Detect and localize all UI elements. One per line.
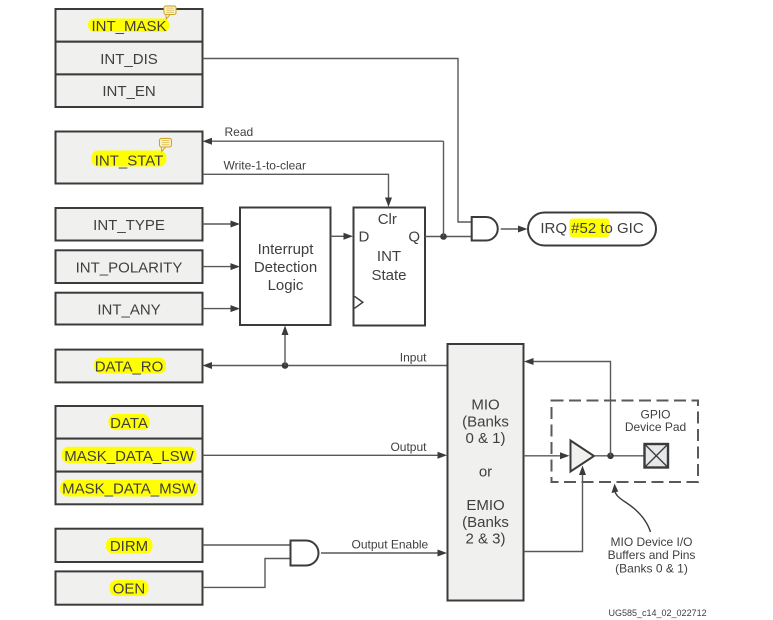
svg-text:MIO Device I/O: MIO Device I/O xyxy=(610,535,692,549)
GPIO device pad symbol xyxy=(645,444,669,468)
wire OEN to AND U2 bottom input xyxy=(203,559,291,588)
svg-text:INT_POLARITY: INT_POLARITY xyxy=(76,259,183,276)
svg-text:EMIO: EMIO xyxy=(466,497,504,514)
svg-text:Read: Read xyxy=(225,125,254,139)
wire Q output to AND U1 bottom input xyxy=(425,236,471,238)
wire pad node feedback to MIO input xyxy=(533,362,611,456)
INT State flip-flop block xyxy=(354,208,426,326)
IRQ #52 to GIC oval xyxy=(528,213,656,246)
svg-text:INT_DIS: INT_DIS xyxy=(100,51,158,68)
highlight DIRM xyxy=(106,538,153,554)
svg-text:Buffers and Pins: Buffers and Pins xyxy=(608,548,696,562)
svg-text:Write-1-to-clear: Write-1-to-clear xyxy=(224,159,306,173)
register OEN xyxy=(56,571,203,604)
wire INT_ANY to detection logic xyxy=(203,308,232,310)
interrupt detection logic block xyxy=(240,208,331,326)
svg-text:Input: Input xyxy=(400,351,427,365)
wire Output Enable to MIO xyxy=(321,552,439,554)
register INT_POLARITY xyxy=(56,250,203,283)
wire Write-1-to-clear to Clr pin xyxy=(203,174,389,199)
register INT_STAT xyxy=(56,132,203,184)
register INT_ANY xyxy=(56,293,203,325)
highlight DATA_RO xyxy=(94,358,166,374)
svg-text:DATA: DATA xyxy=(110,415,148,432)
svg-text:INT_TYPE: INT_TYPE xyxy=(93,217,165,234)
svg-text:D: D xyxy=(359,228,370,245)
highlight MASK_DATA_MSW xyxy=(60,480,198,497)
junction dot input node xyxy=(282,362,289,369)
junction dot pad node xyxy=(607,453,614,460)
register DIRM xyxy=(56,529,203,562)
svg-text:INT_EN: INT_EN xyxy=(102,83,155,100)
svg-text:MASK_DATA_MSW: MASK_DATA_MSW xyxy=(62,481,196,498)
register INT_TYPE xyxy=(56,208,203,241)
svg-text:(Banks: (Banks xyxy=(462,413,509,430)
dashed boundary MIO device IO buffers xyxy=(552,401,699,483)
wire Output from MASK_DATA_LSW to MIO xyxy=(203,454,439,456)
note icon on INT_STAT xyxy=(160,138,172,151)
svg-text:DIRM: DIRM xyxy=(110,538,148,555)
wire detection logic to D input xyxy=(331,235,345,237)
register group INT_MASK / INT_DIS / INT_EN xyxy=(56,9,203,107)
svg-text:Device Pad: Device Pad xyxy=(625,420,686,434)
wire INT_TYPE to detection logic xyxy=(203,223,232,225)
wire INT_DIS to AND U1 top input xyxy=(203,59,472,223)
svg-text:Clr: Clr xyxy=(378,211,397,228)
highlight INT_MASK xyxy=(88,19,170,33)
svg-text:INT: INT xyxy=(377,248,401,265)
wire input node up into detection logic xyxy=(284,334,286,366)
svg-text:INT_MASK: INT_MASK xyxy=(91,18,166,35)
wire MIO output enable to buffer enable xyxy=(524,474,583,552)
wire AND U1 output to IRQ oval xyxy=(501,228,519,230)
svg-text:INT_STAT: INT_STAT xyxy=(95,152,164,169)
svg-text:MASK_DATA_LSW: MASK_DATA_LSW xyxy=(64,448,194,465)
svg-text:Output Enable: Output Enable xyxy=(352,538,429,552)
svg-text:State: State xyxy=(371,267,406,284)
svg-text:(Banks: (Banks xyxy=(462,514,509,531)
highlight DATA xyxy=(109,414,150,430)
svg-text:0 & 1): 0 & 1) xyxy=(465,430,505,447)
wire DIRM to AND U2 top input xyxy=(203,544,291,546)
wire Input from MIO to DATA_RO xyxy=(210,365,448,367)
svg-text:Logic: Logic xyxy=(268,277,304,294)
wire MIO to buffer input xyxy=(524,455,562,457)
highlight MASK_DATA_LSW xyxy=(62,447,197,464)
svg-text:Output: Output xyxy=(390,440,427,454)
svg-text:or: or xyxy=(479,464,492,481)
wire Q node up to Read line xyxy=(443,141,445,236)
AND gate U1 xyxy=(472,217,498,241)
wire Read into INT_STAT xyxy=(210,140,444,142)
svg-text:MIO: MIO xyxy=(471,397,499,414)
AND gate U2 xyxy=(291,541,319,566)
svg-text:2 & 3): 2 & 3) xyxy=(465,531,505,548)
svg-text:(Banks 0 & 1): (Banks 0 & 1) xyxy=(615,561,688,575)
wire buffer output to pad xyxy=(594,455,644,457)
highlight OEN xyxy=(110,580,149,596)
highlight #52 xyxy=(570,219,610,238)
svg-text:IRQ #52 to GIC: IRQ #52 to GIC xyxy=(540,220,644,237)
MIO / EMIO mux block xyxy=(448,344,524,601)
register DATA_RO xyxy=(56,350,203,383)
junction dot Q node xyxy=(440,233,447,240)
svg-text:OEN: OEN xyxy=(113,581,146,598)
wire INT_POLARITY to detection logic xyxy=(203,266,232,268)
highlight INT_STAT xyxy=(92,151,167,167)
register group DATA / MASK_DATA_LSW / MASK_DATA_MSW xyxy=(56,406,203,504)
svg-text:Q: Q xyxy=(408,228,420,245)
I/O buffer triangle xyxy=(571,441,595,472)
svg-text:DATA_RO: DATA_RO xyxy=(95,359,164,376)
callout curved arrow xyxy=(615,491,651,533)
svg-text:INT_ANY: INT_ANY xyxy=(97,301,160,318)
note icon on INT_MASK xyxy=(164,6,176,19)
svg-text:Interrupt: Interrupt xyxy=(258,241,315,258)
svg-text:UG585_c14_02_022712: UG585_c14_02_022712 xyxy=(609,608,707,618)
clock pin triangle xyxy=(355,296,363,308)
svg-text:Detection: Detection xyxy=(254,259,317,276)
